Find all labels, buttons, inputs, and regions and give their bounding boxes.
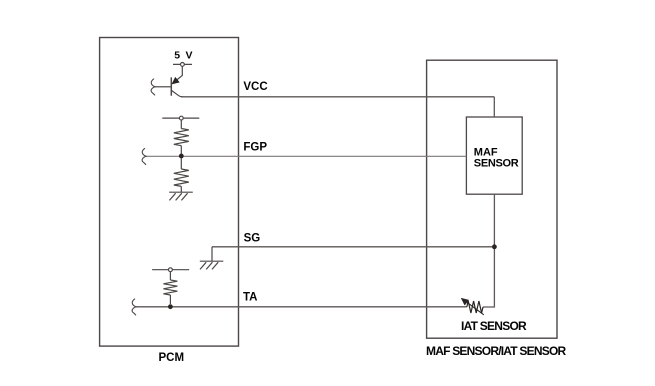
wire break squiggle (FGP left) [142,148,146,164]
ground (FGP) [169,192,193,200]
IAT sensor arrow [466,301,484,314]
wire break squiggle (base) [151,79,155,95]
wire SG stub down [211,247,213,261]
wire [180,120,182,128]
thermistor IAT sensor [467,301,483,313]
wire [180,146,182,154]
TA terminal [152,269,189,271]
wire [169,272,171,280]
wire VCC vertical drop to MAF sensor [493,97,495,117]
resistor R1 (pull-up) [174,129,189,146]
FGP terminal [162,117,199,119]
resistor R3 (TA pull-up) [163,280,177,295]
MAF SENSOR/IAT SENSOR outer box [427,60,557,338]
svg-text:VCC: VCC [243,81,267,93]
transistor Q1 collector [172,91,183,97]
node junction dot FGP [179,154,184,159]
wire MAF sensor bottom vertical to TA [483,194,494,307]
resistor R2 (pull-down) [174,169,189,186]
transistor Q1 base bar [170,77,172,95]
svg-text:TA: TA [243,292,257,304]
wire TA [136,306,467,308]
node junction dot SG/MAF [492,244,497,249]
MAF SENSOR inner box U1 [466,117,522,194]
svg-text:IAT SENSOR: IAT SENSOR [461,319,527,333]
svg-text:PCM: PCM [159,352,185,364]
svg-text:5 V: 5 V [174,50,193,62]
wire base [155,86,171,88]
svg-text:FGP: FGP [243,141,267,153]
wire VCC [181,96,494,98]
ground (SG) [200,261,224,269]
wire break squiggle (TA left) [132,299,136,315]
wire SG [212,246,494,248]
transistor Q1 emitter wire with arrow [176,67,182,81]
PCM box [100,38,239,347]
wire [180,186,182,192]
wire [180,158,182,169]
svg-text:SG: SG [244,233,261,245]
svg-text:SENSOR: SENSOR [474,157,519,169]
node junction dot TA [168,304,173,309]
wire FGP [146,155,466,157]
svg-text:MAF SENSOR/IAT SENSOR: MAF SENSOR/IAT SENSOR [426,344,567,358]
wire [169,295,171,304]
5V terminal circle [173,63,192,65]
